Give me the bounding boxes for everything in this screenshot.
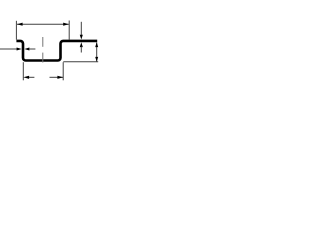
rail height arrow pointing up <box>95 42 98 47</box>
top dimension arrow left <box>17 23 23 26</box>
centerline (dash-dot) x=42.8 <box>42 37 44 63</box>
bottom width dimension line right segment <box>50 76 64 78</box>
top width dimension: extension line left <box>15 21 17 40</box>
bottom width extension line right x=63.2 <box>62 62 64 80</box>
flange thickness arrow pointing up <box>80 42 83 47</box>
rail height dimension line x=96.7 <box>96 43 98 62</box>
flange thickness arrow pointing down <box>80 35 83 40</box>
web thickness arrow pointing left <box>24 48 29 51</box>
web thickness arrow pointing right <box>17 48 22 51</box>
rail height arrow pointing down <box>95 57 98 62</box>
bottom edge extension line (horizontal) <box>63 61 98 63</box>
bottom width arrow pointing right <box>57 76 63 79</box>
DIN rail hat profile (thick section line) <box>16 41 97 61</box>
top width dimension line <box>17 23 69 25</box>
flange thickness dimension upper line x=81.3 <box>80 22 82 36</box>
background <box>0 0 100 100</box>
bottom width extension line left x=23.3 <box>22 62 24 80</box>
web thickness dimension line left part <box>0 48 18 50</box>
top dimension arrow right <box>63 23 69 26</box>
flange thickness dimension lower tail <box>80 47 82 53</box>
top width dimension: extension line right <box>68 21 70 40</box>
bottom width dimension line left segment <box>28 76 35 78</box>
bottom width arrow pointing left <box>23 76 29 79</box>
web thickness dimension tail right <box>29 48 36 50</box>
